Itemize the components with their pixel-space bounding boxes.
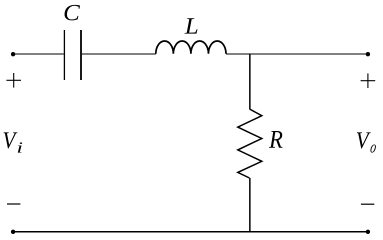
capacitor C1 left plate [63, 30, 65, 80]
label + (left) [6, 73, 21, 88]
resistor R1 zigzag [238, 109, 262, 178]
node: top-left terminal dot [11, 52, 15, 56]
wire: top-left terminal to capacitor [13, 53, 64, 55]
inductor L1 [156, 41, 226, 54]
node: top-right terminal dot [366, 52, 370, 56]
label L [185, 18, 198, 33]
node: bottom-right terminal dot [366, 230, 370, 234]
label + (right) [361, 73, 376, 88]
label C [65, 5, 81, 21]
label V_i [4, 132, 18, 148]
wire: inductor to right terminal (through node) [226, 53, 368, 55]
label R [269, 131, 283, 148]
wire: bottom rail [13, 231, 368, 233]
label minus (left) [7, 203, 20, 205]
wire: resistor down to bottom wire [249, 178, 251, 233]
wire: top node down to resistor [249, 54, 251, 109]
label V_o [357, 132, 371, 148]
label minus (right) [361, 203, 374, 205]
wire: capacitor to inductor [82, 53, 156, 55]
capacitor C1 right plate [80, 30, 82, 80]
node: bottom-left terminal dot [11, 230, 15, 234]
